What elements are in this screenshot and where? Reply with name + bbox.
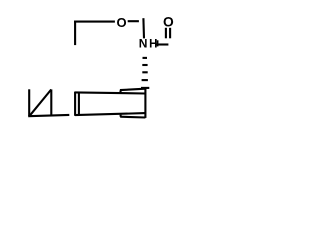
triangle diagonal: [30, 90, 52, 116]
wire CH2-N: [142, 18, 145, 38]
triangle bottom bond: [28, 115, 69, 116]
ring long top edge: [75, 92, 145, 93]
wire CH2-O: [74, 21, 115, 23]
wire O-CH2: [128, 20, 139, 22]
triangle right vertical: [50, 89, 52, 115]
fork connector bottom: [119, 115, 121, 117]
ring outer bottom edge: [120, 116, 145, 119]
ring outer top edge: [120, 89, 145, 90]
ring long bottom edge: [75, 113, 145, 115]
wire N-CHO: [156, 43, 169, 45]
svg-text:O: O: [116, 15, 126, 30]
wire ethyl CH3-CH2: [74, 21, 76, 45]
svg-text:N: N: [139, 37, 148, 51]
hashed stereo bond: [143, 57, 148, 59]
plus charge tick: [157, 40, 159, 46]
ring right vertical: [144, 88, 146, 118]
triangle left vertical: [28, 89, 30, 116]
ring left outer vertical: [74, 92, 76, 116]
svg-text:O: O: [163, 14, 174, 29]
wire C=O double bond: [165, 28, 167, 39]
ring left inner vertical: [78, 93, 80, 114]
svg-text:H: H: [149, 39, 157, 51]
fork connector top: [119, 90, 121, 92]
